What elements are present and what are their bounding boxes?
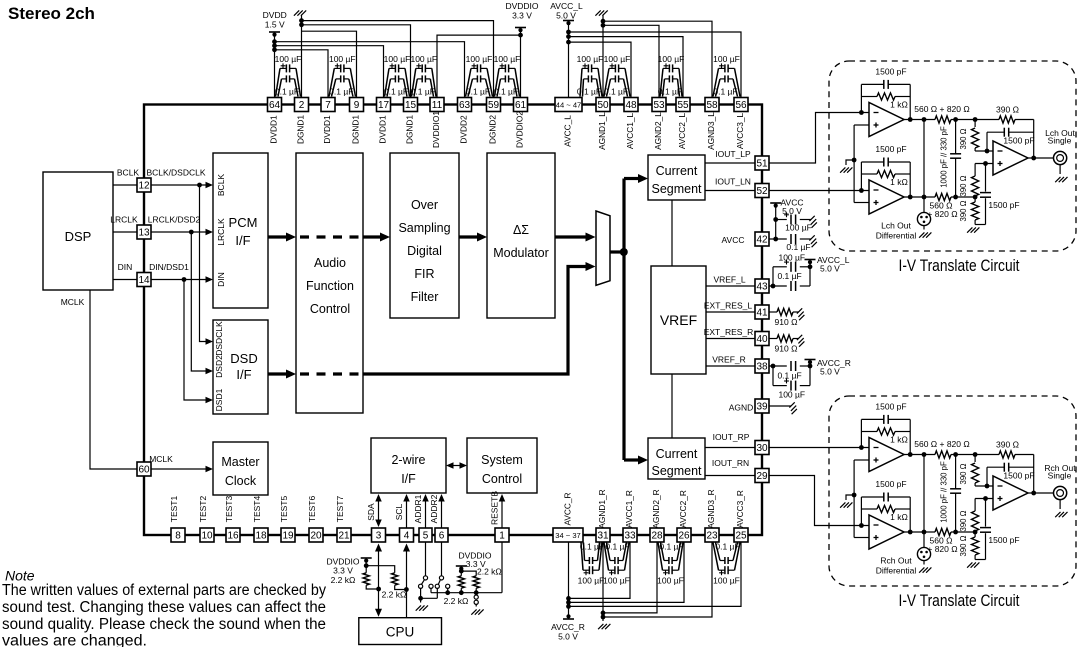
svg-text:IOUT_RP: IOUT_RP: [713, 432, 750, 442]
svg-text:Differential: Differential: [876, 231, 917, 241]
wire U3R output: [1028, 492, 1053, 494]
wire pin 52 to U2L: [769, 190, 869, 192]
wire AVCC_R rail to pin 33: [569, 543, 631, 599]
svg-text:DGND2: DGND2: [488, 115, 498, 144]
svg-text:AVCC_R: AVCC_R: [563, 492, 573, 525]
switch RESETB: [444, 593, 479, 607]
supply DVDD 1.5V: [263, 10, 287, 98]
junction switch ground: [418, 596, 423, 601]
supply AVCC_R 5.0V bottom: [551, 543, 585, 642]
wire VREF to Current Segment R: [671, 374, 673, 438]
svg-text:Clock: Clock: [225, 474, 257, 488]
resistor 2.2k pin5 side: [458, 571, 464, 593]
svg-text:3.3 V: 3.3 V: [333, 566, 353, 576]
svg-text:TEST2: TEST2: [198, 496, 208, 523]
ground differential connector L: [919, 232, 924, 237]
block VREF: [651, 266, 706, 374]
junction AVCC cap tap: [773, 217, 778, 222]
junction minus row U3R: [985, 484, 990, 489]
capacitor 1500pF U3R: [987, 463, 1035, 486]
capacitors 100uF 0.1uF pins 17-15: [384, 54, 411, 97]
wire differential output L: [923, 120, 925, 213]
svg-text:390 Ω: 390 Ω: [959, 510, 968, 531]
junction U2L: [859, 188, 864, 193]
wire U3R plus input: [975, 498, 993, 500]
wire AVCC_L rail to pin 55: [569, 37, 684, 98]
wire U2L output: [904, 196, 975, 198]
capacitor 1500pF U2L: [875, 144, 906, 167]
svg-text:TEST6: TEST6: [307, 496, 317, 523]
junction plus row R: [983, 496, 988, 501]
pin 56 AVCC3_L: [734, 98, 748, 150]
resistor 1k U2R: [877, 505, 908, 522]
svg-text:50: 50: [597, 100, 609, 111]
capacitors 100uF 0.1uF pins 59-61: [494, 54, 521, 97]
IC chip boundary: [144, 105, 762, 536]
wire LRCLK to DSD2: [191, 232, 213, 374]
capacitors 100uF 0.1uF pins 58-56: [713, 54, 740, 97]
svg-text:0.1 µF: 0.1 µF: [466, 87, 490, 97]
svg-text:I/F: I/F: [236, 367, 251, 382]
pin 61 DVDDIO2: [514, 98, 528, 148]
svg-text:43: 43: [756, 282, 768, 293]
svg-text:910 Ω: 910 Ω: [775, 344, 798, 354]
pin 55 AVCC2_L: [676, 98, 690, 150]
wire IOUT_LN: [705, 177, 755, 191]
capacitor 1500pF shunt L: [975, 164, 1020, 225]
svg-text:Sampling: Sampling: [398, 221, 450, 235]
svg-text:14: 14: [138, 275, 150, 286]
resistor 910 ohm pin 40: [769, 335, 799, 354]
wire feedback U1L: [861, 84, 910, 119]
pin 28 AGND2_R: [650, 489, 664, 542]
supply DVDDIO 3.3V pullups SDA SCL: [326, 557, 371, 586]
pin 19 TEST5: [279, 496, 295, 542]
I-V translate dashed box R: [829, 396, 1076, 586]
svg-text:390 Ω: 390 Ω: [959, 175, 968, 196]
op-amp U2L: [869, 180, 904, 214]
junction BCLK: [197, 183, 202, 188]
svg-text:CPU: CPU: [386, 625, 415, 640]
capacitor 100uF pin 42: [776, 212, 812, 232]
wire U1R output: [904, 454, 956, 456]
svg-text:Segment: Segment: [651, 182, 702, 196]
svg-text:LRCLK: LRCLK: [110, 215, 138, 225]
svg-text:1.5 V: 1.5 V: [265, 20, 285, 30]
wire DVDD rail to pin 63: [275, 42, 465, 98]
wire U3L plus input: [975, 163, 993, 165]
ground DGND top: [294, 10, 306, 97]
svg-text:100 µF: 100 µF: [713, 576, 740, 586]
block Audio Function Control: [296, 153, 363, 413]
op-amp U3R: [993, 476, 1028, 510]
pin 40: [755, 332, 769, 346]
wire DGND rail to pin 15: [302, 25, 411, 98]
resistor 390 Rc L: [959, 197, 979, 225]
wire differential output R: [923, 455, 925, 548]
svg-text:Differential: Differential: [876, 566, 917, 576]
svg-text:0.1 µF: 0.1 µF: [658, 87, 682, 97]
wire SCL to CPU: [403, 544, 410, 618]
svg-text:23: 23: [706, 531, 718, 542]
junction line A: [445, 590, 450, 595]
resistor 910 ohm pin 41: [769, 308, 799, 327]
wire Audio Function Control to FIR filter: [363, 233, 390, 242]
svg-text:AVCC2_L: AVCC2_L: [677, 112, 687, 149]
resistor 560+820 top L: [914, 104, 969, 123]
svg-text:FIR: FIR: [414, 267, 434, 281]
svg-text:DSD1: DSD1: [214, 388, 224, 411]
capacitors 100uF 0.1uF pins 15-11: [410, 54, 437, 97]
resistor 390 Rb R: [959, 499, 979, 533]
svg-text:AVCC3_L: AVCC3_L: [735, 112, 745, 149]
junction SDA pullup: [376, 587, 381, 592]
svg-text:100 µF: 100 µF: [658, 54, 685, 64]
svg-text:DVDD: DVDD: [263, 10, 287, 20]
ground 100uF pin 42: [809, 216, 814, 221]
svg-text:2: 2: [299, 100, 305, 111]
svg-text:3: 3: [376, 531, 382, 542]
wire feedback U2L: [861, 162, 910, 197]
svg-text:DSD: DSD: [230, 351, 257, 366]
svg-text:40: 40: [756, 334, 768, 345]
svg-text:MCLK: MCLK: [149, 454, 173, 464]
wire Current Segment L to VREF: [671, 200, 673, 266]
svg-text:TEST5: TEST5: [279, 496, 289, 523]
svg-text:I-V Translate Circuit: I-V Translate Circuit: [899, 257, 1020, 275]
capacitor 1500pF shunt R: [975, 499, 1020, 560]
svg-text:1 kΩ: 1 kΩ: [890, 435, 908, 445]
pin 25 AVCC3_R: [734, 490, 748, 542]
capacitor 0.1uF pin 38: [777, 361, 801, 381]
svg-text:AGND2_L: AGND2_L: [653, 112, 663, 150]
pin 14: [137, 273, 151, 287]
switch ADDR2: [435, 543, 450, 599]
svg-text:29: 29: [756, 471, 768, 482]
capacitor 1000pF 330pF R: [940, 455, 962, 533]
wire DIN/DSD1 to PCM: [149, 262, 213, 283]
junction LRCLK: [189, 230, 194, 235]
svg-text:AVCC_L: AVCC_L: [563, 115, 573, 147]
wire ADDR1 internal: [422, 494, 429, 528]
connector Rch Out Single: [1044, 463, 1076, 509]
svg-text:33: 33: [624, 531, 636, 542]
svg-text:sound quality. Please check t: sound quality. Please check the sound wh…: [2, 616, 326, 633]
wire SDA internal: [375, 494, 382, 527]
svg-text:Control: Control: [310, 302, 350, 316]
svg-text:1500 pF: 1500 pF: [875, 144, 906, 154]
svg-text:0.1 µF: 0.1 µF: [777, 271, 801, 281]
mux: [596, 211, 610, 285]
svg-text:VREF_L: VREF_L: [713, 275, 745, 285]
svg-text:0.1 µF: 0.1 µF: [494, 87, 518, 97]
svg-text:100 µF: 100 µF: [603, 576, 630, 586]
svg-text:Control: Control: [482, 472, 522, 486]
svg-text:55: 55: [677, 100, 689, 111]
junction DVDDIO branch: [459, 569, 464, 574]
svg-text:60: 60: [138, 465, 150, 476]
svg-text:DGND1: DGND1: [405, 115, 415, 144]
wire EXT_RES_R: [704, 327, 755, 339]
capacitors 100uF 0.1uF pins 63-59: [466, 54, 493, 97]
wire LRCLK: [110, 215, 138, 233]
svg-text:31: 31: [597, 531, 609, 542]
junction AGND_R rails: [601, 611, 606, 616]
connector Lch Out Differential: [876, 212, 931, 240]
svg-text:Rch Out: Rch Out: [880, 556, 912, 566]
wire Delta-Sigma Modulator to mux: [555, 233, 596, 242]
svg-text:19: 19: [282, 531, 294, 542]
wire node to 390 R: [956, 455, 1034, 494]
svg-text:Current: Current: [656, 164, 698, 178]
op-amp U3L: [993, 141, 1028, 175]
svg-text:Segment: Segment: [651, 464, 702, 478]
svg-text:1: 1: [499, 531, 505, 542]
pin 43: [755, 279, 769, 293]
wire AGND_R rail to pin 23: [603, 543, 712, 618]
junction pin 43 net: [771, 284, 776, 289]
svg-text:sound test. Changing these va: sound test. Changing these values can af…: [2, 599, 326, 616]
pin 50 AGND1_L: [596, 98, 610, 150]
ground single connector R: [1055, 512, 1060, 517]
svg-text:910 Ω: 910 Ω: [775, 317, 798, 327]
capacitor 1500pF U1R: [875, 402, 906, 424]
wire BCLK: [113, 168, 139, 186]
block Current Segment R: [648, 438, 705, 479]
wire IOUT_LP: [705, 149, 755, 163]
block System Control: [467, 438, 537, 493]
svg-text:2.2 kΩ: 2.2 kΩ: [477, 567, 502, 577]
wire BCLK/DSDCLK to PCM: [146, 168, 213, 189]
svg-text:390 Ω: 390 Ω: [996, 440, 1019, 450]
pin 21 TEST7: [335, 496, 351, 542]
svg-text:34 ~ 37: 34 ~ 37: [555, 531, 581, 540]
wire ADDR line A: [431, 592, 502, 594]
junction nodes row1 R: [953, 452, 958, 457]
svg-text:5.0 V: 5.0 V: [820, 367, 840, 377]
svg-text:Stereo 2ch: Stereo 2ch: [8, 4, 95, 23]
block Master Clock: [213, 442, 268, 495]
capacitor 0.1uF pin 42: [786, 234, 811, 252]
svg-text:25: 25: [735, 531, 747, 542]
op-amp U1R: [869, 438, 904, 472]
svg-text:61: 61: [515, 100, 527, 111]
svg-text:10: 10: [201, 531, 213, 542]
svg-text:0.1 µF: 0.1 µF: [786, 242, 810, 252]
junction U1R: [859, 445, 864, 450]
svg-text:0.1 µF: 0.1 µF: [275, 87, 299, 97]
pin 48 AVCC1_L: [624, 98, 638, 150]
wire RESETB external: [501, 543, 503, 593]
resistor 390 Ra R: [959, 455, 993, 487]
svg-text:DVDDIO2: DVDDIO2: [515, 111, 525, 148]
svg-text:AVCC_R: AVCC_R: [551, 622, 585, 632]
svg-text:values are changed.: values are changed.: [2, 633, 147, 647]
svg-text:2.2 kΩ: 2.2 kΩ: [444, 596, 469, 606]
ground AGND_L top: [595, 10, 607, 97]
capacitors 100uF 0.1uF pins 34-31: [578, 542, 605, 586]
wire dashed through Audio Function Control upper: [300, 235, 363, 238]
svg-text:DSP: DSP: [65, 229, 92, 244]
svg-text:ΔΣ: ΔΣ: [513, 223, 529, 237]
junction ground stub R: [852, 493, 857, 498]
wire DVDD rail to pin 7: [275, 50, 329, 98]
svg-text:42: 42: [756, 235, 768, 246]
resistor 1k U2L: [877, 170, 908, 187]
junction nodes row2 L: [953, 195, 958, 200]
junction nodes row2 R: [953, 530, 958, 535]
svg-text:6: 6: [439, 531, 445, 542]
supply AVCC_R 5.0V pin 38: [805, 358, 851, 377]
pin 29: [755, 469, 769, 483]
junction SCL pullup: [404, 587, 409, 592]
junction nodes row1 L: [953, 117, 958, 122]
wire FIR filter to Delta-Sigma Modulator: [459, 233, 487, 242]
svg-text:0.1 µF: 0.1 µF: [713, 87, 737, 97]
svg-text:BCLK: BCLK: [216, 174, 226, 197]
svg-text:Audio: Audio: [314, 256, 346, 270]
pin 41: [755, 305, 769, 319]
capacitor 1500pF U2R: [875, 479, 906, 502]
svg-text:64: 64: [269, 100, 281, 111]
svg-text:21: 21: [338, 531, 350, 542]
svg-text:1000 pF // 330 pF: 1000 pF // 330 pF: [940, 126, 949, 188]
pin 6 ADDR2: [429, 494, 448, 542]
svg-text:0.1 µF: 0.1 µF: [329, 87, 353, 97]
svg-text:I/F: I/F: [401, 472, 416, 486]
svg-text:Digital: Digital: [407, 244, 442, 258]
svg-text:12: 12: [138, 181, 150, 192]
svg-text:11: 11: [432, 100, 443, 111]
svg-text:100 µF: 100 µF: [275, 54, 302, 64]
svg-text:26: 26: [678, 531, 690, 542]
wire DGND rail to pin 9: [302, 31, 357, 97]
svg-text:LRCLK: LRCLK: [216, 218, 226, 246]
junction DVDD rails: [272, 39, 277, 44]
wire DGND rail to pin 59: [302, 21, 494, 98]
svg-text:AVCC3_R: AVCC3_R: [735, 490, 745, 528]
svg-text:SCL: SCL: [394, 503, 404, 520]
pin 23 AGND3_R: [705, 489, 719, 542]
svg-text:1500 pF: 1500 pF: [1003, 136, 1034, 146]
pin 20 TEST6: [307, 496, 323, 542]
svg-text:1 kΩ: 1 kΩ: [890, 177, 908, 187]
svg-text:AGND1_R: AGND1_R: [597, 489, 607, 528]
pin 30: [755, 441, 769, 455]
capacitors 100uF 0.1uF pins 28-26: [657, 542, 684, 586]
svg-text:DGND1: DGND1: [351, 115, 361, 144]
pin 51: [755, 156, 769, 170]
svg-text:0.1 µF: 0.1 µF: [659, 542, 683, 552]
pin 17 DVDD1: [377, 98, 391, 144]
wire AVCC_L rail to pin 48: [569, 42, 632, 97]
wire MCLK to Master Clock: [149, 454, 213, 472]
block Over Sampling Digital FIR Filter: [390, 153, 459, 318]
pin 12: [137, 178, 151, 192]
svg-text:0.1 µF: 0.1 µF: [715, 542, 739, 552]
svg-text:100 µF: 100 µF: [329, 54, 356, 64]
wire AGND_L rail to pin 58: [603, 21, 712, 97]
svg-text:1500 pF: 1500 pF: [875, 402, 906, 412]
svg-text:0.1 µF: 0.1 µF: [580, 542, 604, 552]
svg-text:9: 9: [354, 100, 360, 111]
pin 18 TEST4: [252, 496, 268, 542]
wire mux output to current segments: [610, 174, 648, 465]
svg-text:0.1 µF: 0.1 µF: [777, 371, 801, 381]
pin 16 TEST3: [224, 496, 240, 542]
svg-text:DVDD1: DVDD1: [269, 115, 279, 144]
pin 13: [137, 225, 151, 239]
pin 5 ADDR1: [413, 494, 432, 542]
pin 42 AVCC: [722, 232, 770, 246]
svg-text:3.3 V: 3.3 V: [512, 11, 532, 21]
resistor 390 top R: [996, 440, 1019, 459]
svg-text:100 µF: 100 µF: [785, 223, 812, 233]
pin 1 RESETB: [490, 491, 510, 542]
svg-text:1000 pF // 330 pF: 1000 pF // 330 pF: [940, 461, 949, 523]
ground pin 39: [789, 402, 794, 407]
junction pullup branch: [364, 563, 369, 568]
svg-text:ADDR1: ADDR1: [413, 494, 423, 523]
ground pin 40: [797, 335, 802, 340]
wire pin 43 VREF_L net: [769, 262, 810, 286]
connector Rch Out Differential: [876, 547, 931, 575]
svg-text:Single: Single: [1048, 136, 1072, 146]
svg-text:1500 pF: 1500 pF: [1003, 471, 1034, 481]
svg-text:1500 pF: 1500 pF: [988, 200, 1019, 210]
ground divider R: [967, 562, 972, 567]
svg-text:560 Ω + 820 Ω: 560 Ω + 820 Ω: [914, 104, 969, 114]
pin 31 AGND1_R: [596, 489, 610, 542]
svg-text:EXT_RES_R: EXT_RES_R: [704, 327, 754, 337]
supply DVDDIO 3.3V pullups ADDR RESETB: [456, 551, 502, 577]
svg-text:System: System: [481, 453, 523, 467]
resistor 1k U1R: [877, 428, 908, 445]
junction ground stub L: [852, 158, 857, 163]
pin 64 DVDD1: [268, 98, 282, 144]
pin 3 SDA: [366, 503, 386, 542]
junction mux output: [620, 248, 628, 256]
svg-text:VREF_R: VREF_R: [712, 355, 746, 365]
supply AVCC 5.0V pin 42: [770, 198, 803, 240]
svg-text:DVDDIO: DVDDIO: [505, 1, 538, 11]
svg-text:100 µF: 100 µF: [578, 576, 605, 586]
ground pin 41: [797, 308, 802, 313]
pin 60: [137, 462, 151, 476]
wire DSD path to mux: [363, 262, 596, 374]
svg-text:41: 41: [756, 308, 768, 319]
svg-text:TEST7: TEST7: [335, 496, 345, 523]
supply DVDDIO 3.3V top: [505, 1, 538, 98]
svg-text:44 ~ 47: 44 ~ 47: [556, 101, 582, 110]
svg-text:TEST4: TEST4: [252, 496, 262, 523]
junction DVDDIO rail: [518, 33, 523, 38]
svg-text:TEST3: TEST3: [224, 496, 234, 523]
ground divider L: [967, 227, 972, 232]
wire U3L output: [1028, 157, 1053, 159]
svg-text:Single: Single: [1048, 471, 1072, 481]
op-amp U2R: [869, 515, 904, 549]
svg-text:AVCC2_R: AVCC2_R: [678, 490, 688, 528]
svg-text:Function: Function: [306, 279, 354, 293]
svg-text:SDA: SDA: [366, 503, 376, 521]
wire pin 42 to AVCC: [769, 238, 787, 240]
svg-text:IOUT_LN: IOUT_LN: [715, 177, 751, 187]
svg-text:PCM: PCM: [229, 215, 258, 230]
svg-text:AVCC_L: AVCC_L: [550, 1, 583, 11]
capacitors 100uF 0.1uF pins 23-25: [713, 542, 740, 586]
wire AVCC_R rail to pin 26: [569, 543, 685, 603]
